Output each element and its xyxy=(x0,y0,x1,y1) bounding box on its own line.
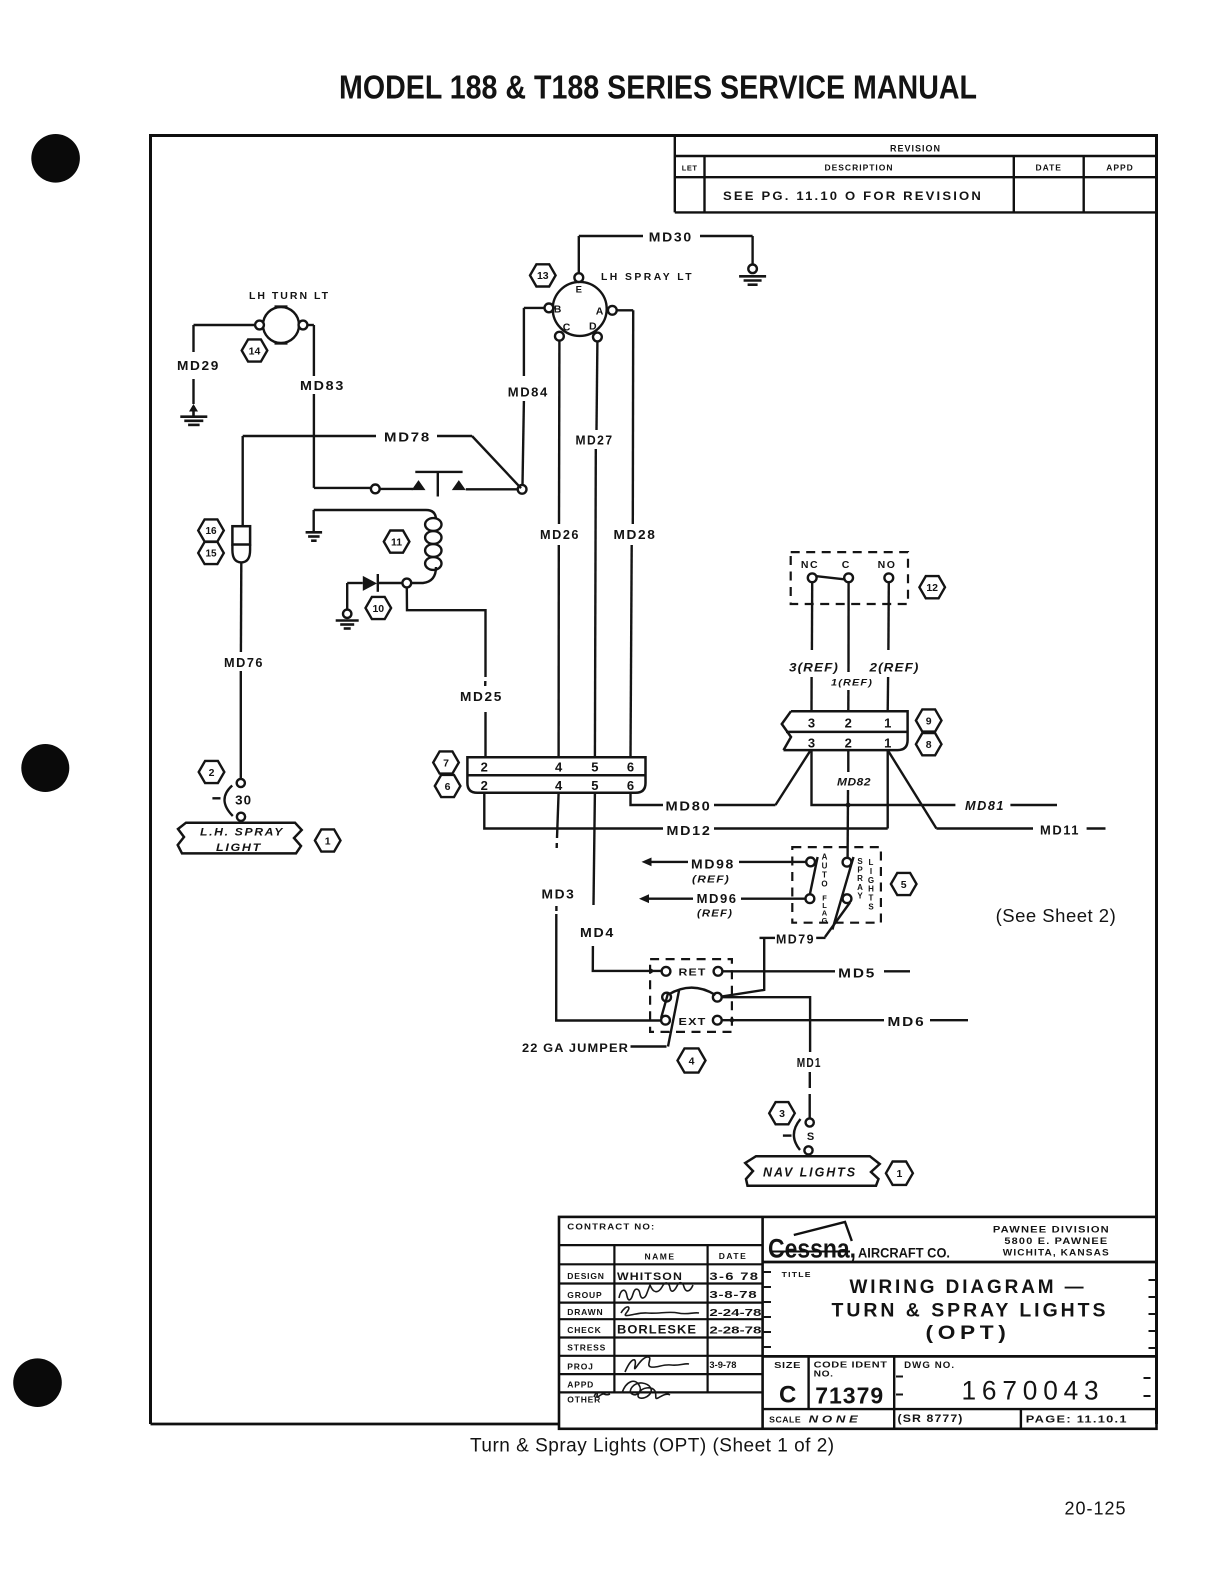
svg-text:2: 2 xyxy=(209,767,215,779)
svg-text:WIRING DIAGRAM —: WIRING DIAGRAM — xyxy=(850,1276,1087,1298)
svg-text:2: 2 xyxy=(481,760,488,775)
svg-text:2(REF): 2(REF) xyxy=(868,661,919,675)
svg-text:S: S xyxy=(807,1131,814,1143)
svg-text:6: 6 xyxy=(627,760,634,775)
svg-text:RET: RET xyxy=(679,967,707,979)
svg-text:SIZE: SIZE xyxy=(774,1360,801,1370)
svg-text:G: G xyxy=(868,876,874,885)
svg-text:A: A xyxy=(822,852,828,861)
svg-text:SEE PG. 11.10 O FOR REVISI: SEE PG. 11.10 O FOR REVISION xyxy=(723,189,983,203)
svg-text:MD28: MD28 xyxy=(614,528,657,542)
svg-text:U: U xyxy=(822,861,828,870)
svg-text:L: L xyxy=(869,858,874,867)
svg-text:PAGE: 11.10.1: PAGE: 11.10.1 xyxy=(1026,1415,1128,1426)
svg-text:(See Sheet 2): (See Sheet 2) xyxy=(996,905,1117,926)
svg-text:DATE: DATE xyxy=(1035,163,1062,173)
svg-text:71379: 71379 xyxy=(815,1383,884,1409)
svg-text:9: 9 xyxy=(926,715,932,727)
svg-text:C: C xyxy=(779,1382,796,1409)
svg-text:3-9-78: 3-9-78 xyxy=(709,1360,736,1370)
svg-text:R: R xyxy=(857,874,863,883)
svg-text:O: O xyxy=(821,879,827,888)
svg-text:20-125: 20-125 xyxy=(1065,1499,1127,1519)
svg-text:(REF): (REF) xyxy=(697,909,733,920)
svg-text:MD1: MD1 xyxy=(797,1056,822,1070)
svg-text:MODEL 188 & T188 SERIES SERVIC: MODEL 188 & T188 SERIES SERVICE MANUAL xyxy=(339,69,977,106)
svg-text:AIRCRAFT CO.: AIRCRAFT CO. xyxy=(858,1246,950,1261)
svg-text:MD84: MD84 xyxy=(508,386,549,400)
svg-text:L.H. SPRAY: L.H. SPRAY xyxy=(200,827,284,839)
svg-text:WICHITA, KANSAS: WICHITA, KANSAS xyxy=(1003,1248,1110,1258)
svg-text:E: E xyxy=(576,285,582,296)
svg-text:10: 10 xyxy=(372,603,384,615)
svg-text:2: 2 xyxy=(481,778,488,793)
svg-text:MD81: MD81 xyxy=(965,799,1005,813)
svg-text:P: P xyxy=(857,866,863,875)
svg-text:(SR 8777): (SR 8777) xyxy=(898,1413,964,1425)
svg-text:DESIGN: DESIGN xyxy=(567,1271,604,1281)
svg-text:LH TURN LT: LH TURN LT xyxy=(249,290,330,302)
svg-text:1670043: 1670043 xyxy=(962,1376,1105,1406)
svg-text:13: 13 xyxy=(537,270,549,282)
svg-text:NAV LIGHTS: NAV LIGHTS xyxy=(763,1165,857,1180)
svg-text:(OPT): (OPT) xyxy=(926,1322,1011,1344)
svg-text:TURN & SPRAY LIGHTS: TURN & SPRAY LIGHTS xyxy=(832,1300,1109,1322)
svg-text:5800 E. PAWNEE: 5800 E. PAWNEE xyxy=(1004,1236,1108,1246)
svg-text:TITLE: TITLE xyxy=(782,1272,812,1279)
svg-text:CHECK: CHECK xyxy=(567,1325,601,1335)
svg-text:8: 8 xyxy=(926,739,932,751)
svg-text:3-8-78: 3-8-78 xyxy=(709,1289,757,1301)
svg-text:MD96: MD96 xyxy=(697,892,738,906)
svg-text:MD26: MD26 xyxy=(540,528,580,542)
svg-text:S: S xyxy=(857,857,863,866)
svg-text:MD80: MD80 xyxy=(666,800,712,814)
svg-text:22 GA JUMPER: 22 GA JUMPER xyxy=(522,1043,629,1055)
svg-text:PAWNEE DIVISION: PAWNEE DIVISION xyxy=(993,1225,1110,1236)
svg-text:MD12: MD12 xyxy=(667,824,712,838)
svg-text:S: S xyxy=(868,903,874,912)
svg-text:C: C xyxy=(563,322,571,334)
svg-text:Cessna,: Cessna, xyxy=(768,1234,856,1264)
svg-text:MD11: MD11 xyxy=(1040,824,1080,838)
svg-text:MD29: MD29 xyxy=(177,359,220,373)
svg-text:DESCRIPTION: DESCRIPTION xyxy=(824,163,893,173)
svg-text:MD3: MD3 xyxy=(542,888,576,902)
svg-text:STRESS: STRESS xyxy=(567,1343,606,1353)
svg-text:1: 1 xyxy=(884,715,891,730)
svg-text:Y: Y xyxy=(857,892,863,901)
svg-text:I: I xyxy=(870,867,872,876)
svg-text:MD4: MD4 xyxy=(580,926,615,940)
svg-text:LIGHT: LIGHT xyxy=(216,842,262,854)
svg-text:1: 1 xyxy=(325,835,331,847)
svg-text:3: 3 xyxy=(779,1108,785,1120)
svg-text:LET: LET xyxy=(682,164,698,173)
svg-text:NO: NO xyxy=(878,559,897,571)
svg-text:H: H xyxy=(868,885,874,894)
svg-text:MD83: MD83 xyxy=(300,379,345,393)
svg-text:MD25: MD25 xyxy=(460,690,503,704)
svg-text:D: D xyxy=(589,321,597,333)
svg-text:6: 6 xyxy=(445,781,451,793)
svg-text:15: 15 xyxy=(205,549,217,560)
svg-text:NO.: NO. xyxy=(814,1369,834,1379)
svg-text:NAME: NAME xyxy=(644,1252,675,1262)
svg-text:A: A xyxy=(857,883,863,892)
svg-text:REVISION: REVISION xyxy=(890,144,941,154)
svg-text:14: 14 xyxy=(249,345,261,357)
svg-text:DATE: DATE xyxy=(719,1251,748,1261)
svg-text:2-28-78: 2-28-78 xyxy=(709,1325,761,1337)
svg-text:MD27: MD27 xyxy=(576,434,614,448)
svg-text:MD5: MD5 xyxy=(838,966,876,980)
svg-text:SCALE: SCALE xyxy=(769,1415,801,1425)
svg-text:G: G xyxy=(822,916,828,925)
svg-text:OTHER: OTHER xyxy=(567,1394,601,1404)
svg-text:7: 7 xyxy=(443,757,449,769)
svg-text:4: 4 xyxy=(555,778,563,793)
svg-text:MD30: MD30 xyxy=(649,231,693,245)
svg-text:APPD: APPD xyxy=(567,1379,594,1389)
svg-text:DRAWN: DRAWN xyxy=(567,1307,603,1317)
svg-text:PROJ: PROJ xyxy=(567,1361,593,1371)
svg-text:APPD: APPD xyxy=(1106,163,1134,173)
svg-text:BORLESKE: BORLESKE xyxy=(617,1323,697,1337)
svg-text:C: C xyxy=(842,559,850,571)
svg-text:5: 5 xyxy=(591,760,598,775)
svg-text:LH SPRAY LT: LH SPRAY LT xyxy=(601,271,694,283)
svg-text:MD82: MD82 xyxy=(837,777,871,789)
svg-text:5: 5 xyxy=(901,879,907,891)
svg-text:3: 3 xyxy=(808,715,815,730)
svg-text:T: T xyxy=(869,894,874,903)
svg-text:3-6 78: 3-6 78 xyxy=(709,1271,759,1283)
svg-text:EXT: EXT xyxy=(679,1016,707,1028)
svg-text:30: 30 xyxy=(235,794,252,808)
svg-text:12: 12 xyxy=(926,582,938,594)
svg-text:5: 5 xyxy=(591,778,598,793)
svg-text:(REF): (REF) xyxy=(692,875,730,886)
svg-text:MD79: MD79 xyxy=(776,933,815,947)
svg-text:NC: NC xyxy=(801,559,819,571)
svg-text:Turn & Spray Lights (OPT) (She: Turn & Spray Lights (OPT) (Sheet 1 of 2) xyxy=(470,1436,835,1457)
svg-text:GROUP: GROUP xyxy=(567,1290,602,1300)
svg-text:2-24-78: 2-24-78 xyxy=(709,1307,761,1319)
svg-text:CONTRACT NO:: CONTRACT NO: xyxy=(567,1222,655,1232)
svg-text:MD78: MD78 xyxy=(384,431,431,445)
svg-text:4: 4 xyxy=(689,1055,695,1067)
svg-text:3(REF): 3(REF) xyxy=(789,661,839,675)
svg-text:MD76: MD76 xyxy=(224,656,264,670)
svg-text:NONE: NONE xyxy=(809,1414,862,1426)
svg-text:16: 16 xyxy=(205,526,217,537)
svg-text:2: 2 xyxy=(845,735,852,750)
svg-text:11: 11 xyxy=(391,536,402,548)
svg-text:1(REF): 1(REF) xyxy=(831,678,873,689)
svg-text:MD6: MD6 xyxy=(888,1015,926,1029)
svg-text:T: T xyxy=(822,870,827,879)
svg-text:2: 2 xyxy=(845,715,852,730)
svg-text:DWG NO.: DWG NO. xyxy=(904,1360,955,1370)
svg-text:B: B xyxy=(554,304,562,316)
svg-text:1: 1 xyxy=(884,735,891,750)
svg-text:3: 3 xyxy=(808,735,815,750)
svg-text:1: 1 xyxy=(896,1168,902,1180)
svg-text:4: 4 xyxy=(555,760,563,775)
svg-text:6: 6 xyxy=(627,778,634,793)
svg-text:WHITSON: WHITSON xyxy=(617,1271,683,1283)
svg-text:MD98: MD98 xyxy=(691,858,735,872)
svg-text:A: A xyxy=(596,306,604,318)
